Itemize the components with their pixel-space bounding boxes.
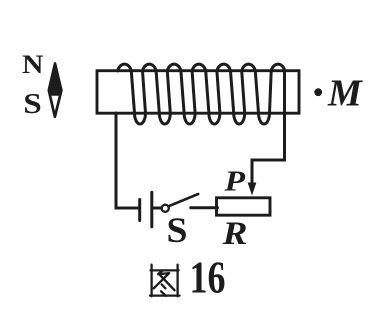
node M dot xyxy=(314,88,322,96)
slider arrow head xyxy=(248,183,257,196)
solenoid core rectangle xyxy=(97,71,299,114)
switch blade xyxy=(168,194,198,206)
svg-text:16: 16 xyxy=(190,252,226,303)
compass needle xyxy=(49,64,62,117)
svg-text:R: R xyxy=(221,216,247,252)
wire switch contact to rheostat xyxy=(191,206,218,209)
wire left lead down and bottom to battery xyxy=(116,113,138,208)
wire battery to switch pivot xyxy=(153,207,161,210)
battery long plate xyxy=(150,192,153,227)
svg-text:M: M xyxy=(327,73,363,115)
caption character tu (figure) xyxy=(150,265,180,297)
wire solenoid right lead xyxy=(252,71,285,186)
svg-text:S: S xyxy=(23,89,42,120)
coil L1 xyxy=(118,64,285,124)
svg-text:N: N xyxy=(22,50,44,79)
svg-text:S: S xyxy=(167,210,188,250)
battery short plate xyxy=(138,200,141,221)
svg-text:P: P xyxy=(223,166,245,198)
rheostat R body xyxy=(217,198,271,215)
switch pivot xyxy=(162,205,169,212)
